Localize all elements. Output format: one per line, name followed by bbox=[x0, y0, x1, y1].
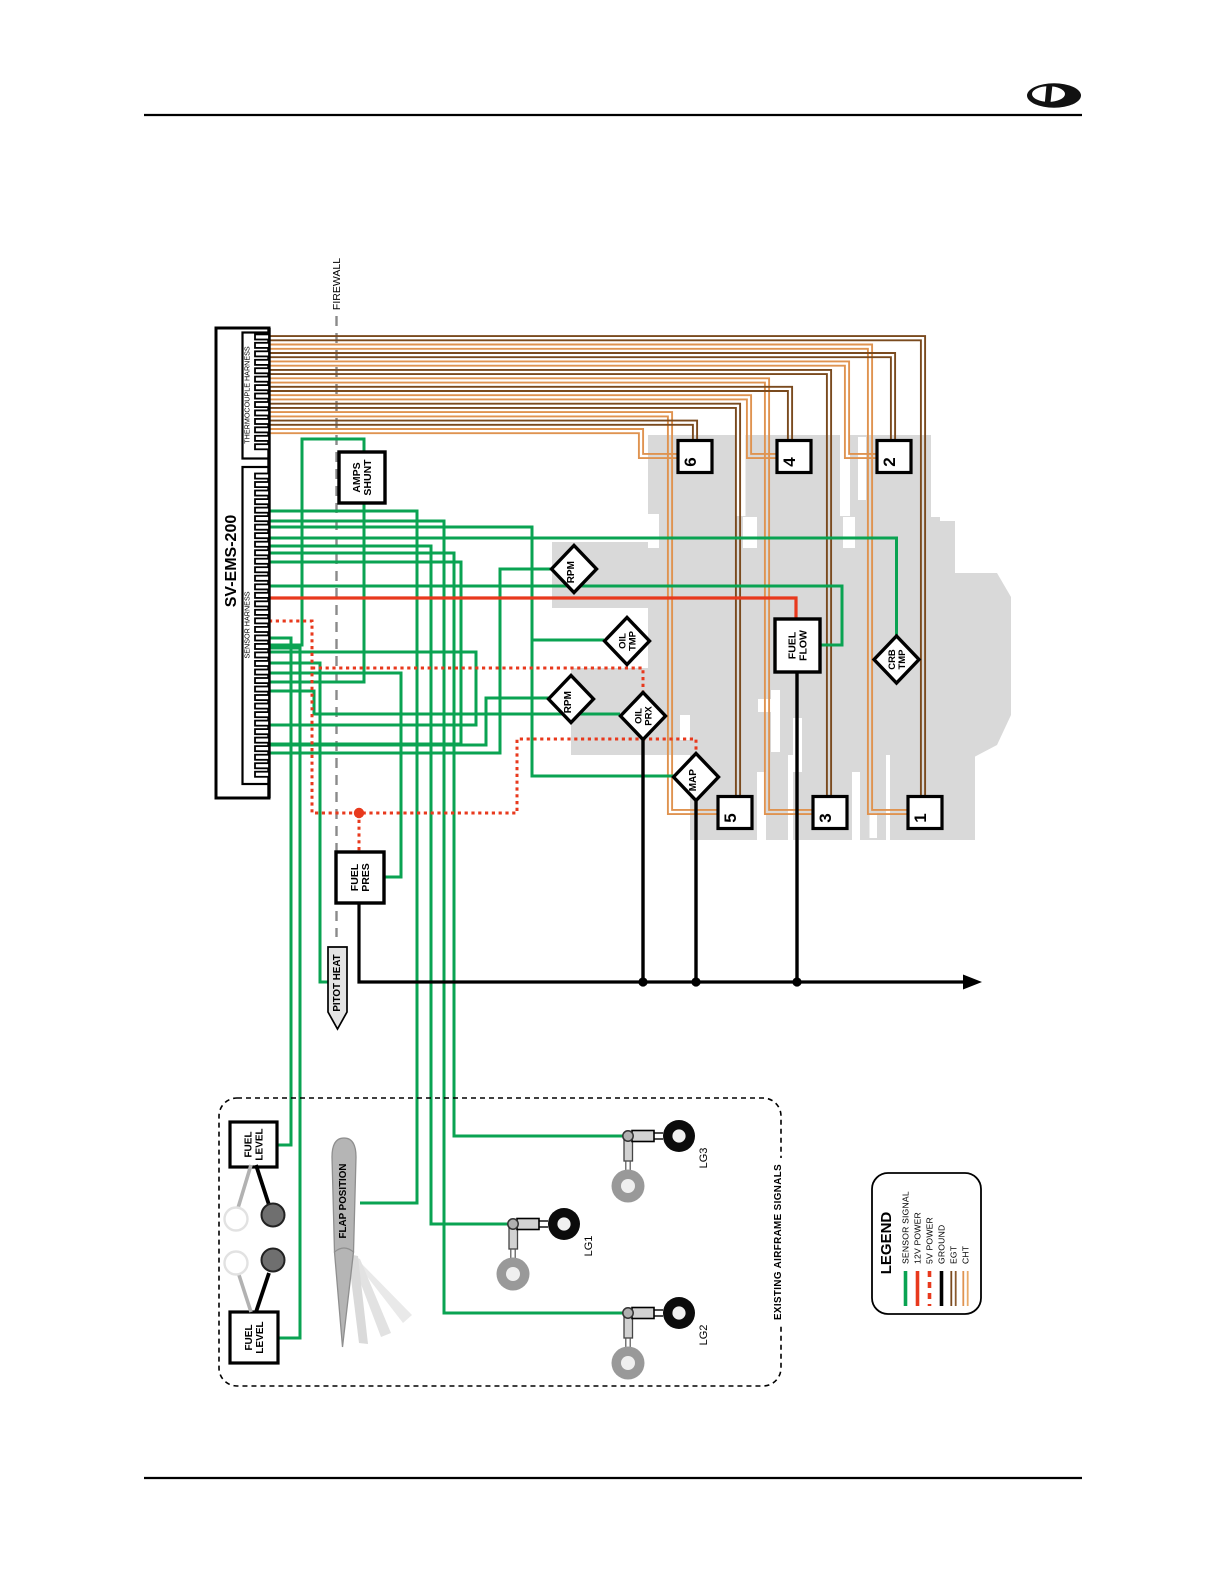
footer rule bbox=[144, 1477, 1082, 1479]
flap position indicator bbox=[332, 1138, 412, 1347]
fuel level 1 wire bbox=[269, 638, 291, 1145]
legend entry GROUND bbox=[937, 1225, 947, 1306]
cylinder box 4 bbox=[777, 441, 811, 473]
ground wire map bbox=[694, 797, 697, 982]
oil temp signal wire bbox=[532, 639, 604, 642]
existing airframe signals box bbox=[219, 1098, 781, 1386]
fuel flow signal wire bbox=[269, 586, 842, 645]
oil prx sensor bbox=[621, 693, 666, 740]
svg-text:AMPSSHUNT: AMPSSHUNT bbox=[351, 459, 374, 496]
fuel pres sensor bbox=[336, 852, 384, 903]
fuel level 2 wire bbox=[269, 648, 300, 1338]
cylinder box 6 bbox=[678, 441, 712, 473]
carb temp signal wire bbox=[269, 538, 897, 637]
svg-text:CRBTMP: CRBTMP bbox=[887, 649, 908, 670]
rpm2 signal wire bbox=[269, 698, 549, 745]
svg-text:FUELLEVEL: FUELLEVEL bbox=[244, 1321, 266, 1353]
header rule bbox=[144, 114, 1082, 116]
logo Dynon bbox=[1027, 83, 1081, 107]
ground bus bbox=[359, 903, 966, 982]
svg-text:GROUND: GROUND bbox=[937, 1225, 947, 1264]
rpm1 signal wire bbox=[269, 569, 551, 753]
MAP signal wire bbox=[269, 527, 674, 776]
legend entry 5V POWER bbox=[925, 1217, 935, 1306]
engine silhouette bbox=[552, 435, 1011, 840]
legend entry EGT bbox=[949, 1245, 959, 1306]
legend box bbox=[872, 1173, 981, 1314]
svg-text:LG3: LG3 bbox=[698, 1148, 710, 1169]
wire pair CHT1 bbox=[269, 336, 925, 796]
svg-text:3: 3 bbox=[816, 813, 835, 822]
wire pair EGT6 bbox=[269, 429, 678, 458]
svg-text:FIREWALL: FIREWALL bbox=[331, 258, 343, 310]
svg-text:FUELFLOW: FUELFLOW bbox=[787, 630, 810, 661]
5V power branch oil prx bbox=[312, 668, 643, 694]
svg-text:1: 1 bbox=[911, 813, 930, 822]
flap position wire bbox=[269, 511, 417, 1203]
svg-text:FLAP POSITION: FLAP POSITION bbox=[338, 1164, 349, 1239]
wire pair EGT3 bbox=[269, 378, 813, 814]
svg-text:OILTMP: OILTMP bbox=[617, 630, 638, 651]
sensor wire U2 bbox=[269, 652, 476, 725]
landing gear LG1 bbox=[497, 1208, 596, 1291]
svg-text:SENSOR HARNESS: SENSOR HARNESS bbox=[243, 591, 252, 658]
thermocouple harness connector bbox=[243, 333, 270, 459]
rpm sensor 2 bbox=[549, 676, 594, 723]
wire pair CHT3 bbox=[269, 370, 831, 796]
svg-text:LG2: LG2 bbox=[698, 1325, 710, 1346]
fuel level 2 floats bbox=[225, 1249, 285, 1313]
oil prx signal wire bbox=[269, 691, 620, 714]
connector SV-EMS-200 outer body bbox=[216, 328, 269, 798]
ground junction bbox=[691, 977, 700, 986]
fuel flow sensor bbox=[775, 619, 820, 672]
pitot heat flag bbox=[328, 947, 347, 1029]
svg-text:RPM: RPM bbox=[563, 691, 574, 713]
amps shunt bbox=[339, 452, 385, 503]
LG3 wire bbox=[269, 553, 623, 1136]
wire pair CHT2 bbox=[269, 353, 895, 441]
sensor wire U1 bbox=[269, 562, 461, 744]
ground junction bbox=[792, 977, 801, 986]
svg-text:FUELPRES: FUELPRES bbox=[349, 863, 372, 892]
ground junction bbox=[638, 977, 647, 986]
landing gear LG2 bbox=[612, 1297, 711, 1380]
svg-text:SV-EMS-200: SV-EMS-200 bbox=[223, 515, 240, 608]
rpm sensor 1 bbox=[552, 546, 597, 593]
svg-text:THERMOCOUPLE HARNESS: THERMOCOUPLE HARNESS bbox=[243, 346, 252, 444]
svg-text:RPM: RPM bbox=[566, 561, 577, 583]
ground wire fuel flow bbox=[795, 673, 798, 982]
svg-text:MAP: MAP bbox=[688, 769, 699, 792]
LG1 wire bbox=[269, 546, 508, 1224]
wire pair CHT4 bbox=[269, 387, 792, 441]
svg-text:4: 4 bbox=[780, 457, 799, 467]
legend entry SENSOR SIGNAL bbox=[901, 1191, 911, 1306]
5V power branch fuel pres bbox=[358, 813, 361, 852]
wire pair CHT6 bbox=[269, 421, 697, 441]
12V power wire bbox=[269, 598, 796, 620]
svg-text:SENSOR SIGNAL: SENSOR SIGNAL bbox=[901, 1191, 911, 1264]
map sensor bbox=[674, 754, 719, 801]
svg-text:PITOT HEAT: PITOT HEAT bbox=[332, 954, 343, 1011]
cylinder box 1 bbox=[908, 797, 942, 829]
wire pair EGT2 bbox=[269, 361, 877, 458]
legend entry 12V POWER bbox=[913, 1212, 923, 1306]
LG2 wire bbox=[269, 521, 623, 1313]
sensor harness connector bbox=[243, 467, 270, 784]
cylinder box 5 bbox=[718, 797, 752, 829]
landing gear LG3 bbox=[612, 1120, 711, 1203]
wire pair CHT5 bbox=[269, 404, 740, 796]
fuel level sensor 1 bbox=[230, 1122, 277, 1167]
wire pair EGT4 bbox=[269, 395, 777, 458]
svg-text:LG1: LG1 bbox=[583, 1236, 595, 1257]
fuel pres signal wire bbox=[269, 673, 401, 877]
svg-text:6: 6 bbox=[681, 457, 700, 466]
oil temp sensor bbox=[605, 618, 650, 665]
5V power wire main bbox=[269, 621, 696, 813]
5V power junction bbox=[354, 808, 364, 818]
amps shunt wire B bbox=[269, 503, 364, 682]
ground wire oil prx bbox=[641, 736, 644, 982]
firewall dashed line bbox=[335, 316, 337, 937]
ground bus arrowhead bbox=[963, 975, 982, 990]
svg-text:OILPRX: OILPRX bbox=[633, 706, 654, 726]
wire pair EGT5 bbox=[269, 412, 718, 814]
cylinder box 2 bbox=[877, 441, 911, 473]
carb temp sensor bbox=[874, 636, 919, 683]
svg-text:2: 2 bbox=[880, 457, 899, 466]
svg-text:12V POWER: 12V POWER bbox=[913, 1212, 923, 1264]
svg-text:EGT: EGT bbox=[949, 1245, 959, 1264]
svg-text:FUELLEVEL: FUELLEVEL bbox=[244, 1128, 266, 1160]
fuel level sensor 2 bbox=[230, 1312, 278, 1363]
wire pair EGT1 bbox=[269, 345, 908, 815]
amps shunt wire A bbox=[269, 439, 364, 645]
connector face line bbox=[267, 328, 270, 798]
fuel level 1 floats bbox=[225, 1165, 285, 1231]
legend entry CHT bbox=[961, 1245, 971, 1306]
svg-text:5V POWER: 5V POWER bbox=[925, 1217, 935, 1264]
svg-text:CHT: CHT bbox=[961, 1245, 971, 1264]
svg-text:5: 5 bbox=[721, 813, 740, 822]
cylinder box 3 bbox=[813, 797, 847, 829]
svg-text:EXISTING AIRFRAME SIGNALS: EXISTING AIRFRAME SIGNALS bbox=[773, 1164, 784, 1320]
connector pins bbox=[255, 334, 269, 776]
svg-text:LEGEND: LEGEND bbox=[878, 1212, 895, 1275]
pitot heat wire bbox=[269, 663, 329, 982]
